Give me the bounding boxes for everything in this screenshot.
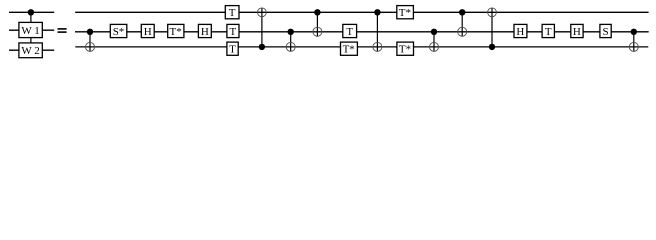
gate T on q1 at x=548 (542, 24, 554, 38)
wire q1 right circuit (75, 31, 649, 33)
svg-text:T: T (230, 26, 237, 38)
wire q2 left circuit (9, 49, 54, 51)
gate W2 (19, 43, 42, 58)
gate T on q2 (227, 42, 238, 56)
svg-text:T: T (229, 44, 236, 56)
svg-text:S: S (602, 26, 608, 38)
wire q0 left circuit (9, 11, 54, 13)
CNOT ctrl q2 target q0 at x=492 (488, 8, 497, 50)
svg-text:W 2: W 2 (21, 45, 39, 57)
CNOT ctrl q1 target q2 at x=434 (430, 29, 439, 52)
gate T* on q0 at x=405 (397, 6, 414, 20)
svg-text:T: T (229, 7, 236, 19)
CNOT ctrl q1 target q2 at x=291 (286, 29, 295, 52)
gate T* on q2 at x=349 (341, 42, 358, 56)
wire control vertical left (30, 12, 32, 50)
control dot left circuit (28, 9, 34, 15)
CNOT ctrl q0 target q1 at x=317 (313, 9, 322, 36)
svg-text:T: T (545, 26, 552, 38)
svg-text:H: H (144, 26, 152, 38)
svg-text:T*: T* (399, 44, 411, 56)
svg-text:H: H (201, 26, 209, 38)
wire q0 right circuit (75, 11, 648, 13)
CNOT ctrl q1 target q2 at x=90 (86, 29, 95, 52)
CNOT ctrl q0 target q1 at x=462 (458, 9, 467, 36)
equals sign (58, 28, 67, 33)
gate W1 (19, 22, 42, 37)
svg-text:H: H (573, 26, 581, 38)
gate T on q1 at x=349 (343, 24, 357, 38)
svg-text:H: H (516, 26, 524, 38)
wire q2 right circuit (75, 46, 648, 48)
svg-text:T*: T* (169, 26, 181, 38)
svg-text:T*: T* (399, 7, 411, 19)
gate H on q1 (141, 24, 154, 38)
CNOT ctrl q2 target q0 at x=262 (258, 8, 267, 50)
svg-text:T: T (346, 26, 353, 38)
gate T* on q2 at x=405 (397, 42, 414, 56)
gate T* on q1 (168, 24, 184, 38)
gate S on q1 at x=605 (600, 24, 611, 38)
CNOT ctrl q0 target q2 at x=377 (373, 9, 382, 51)
gate T on q1 (227, 24, 239, 38)
CNOT ctrl q1 target q2 at x=634 (629, 29, 638, 52)
svg-text:S*: S* (113, 26, 125, 38)
gate T on q0 (225, 6, 239, 20)
wire q1 left circuit (9, 29, 54, 31)
gate S* on q1 (110, 24, 127, 38)
gate H on q1 at x=520 (514, 24, 527, 38)
svg-text:W 1: W 1 (21, 25, 39, 37)
gate H on q1 second (198, 24, 211, 38)
svg-text:T*: T* (343, 44, 355, 56)
gate H on q1 at x=577 (571, 24, 583, 38)
